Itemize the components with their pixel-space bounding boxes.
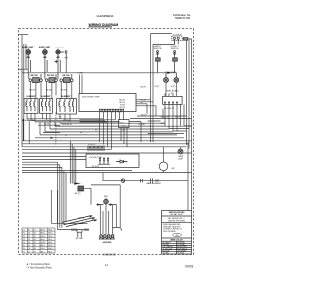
svg-text:W (P): W (P) <box>171 86 176 88</box>
diode D1 <box>116 160 127 163</box>
relay board K2 <box>163 96 183 104</box>
svg-text:INF SW: INF SW <box>47 75 54 77</box>
element box E2 <box>40 99 53 114</box>
svg-text:33: 33 <box>34 239 36 241</box>
svg-text:P5: P5 <box>23 245 25 247</box>
element E2 coils <box>41 99 50 112</box>
wire verticals left feed <box>23 119 60 144</box>
lamp3 terminal marks <box>56 56 60 74</box>
wire drops from bus to bake <box>103 142 188 211</box>
oven lamp LP2 <box>174 75 179 86</box>
TOD box <box>119 120 130 128</box>
svg-text:YELLOW WIRE: YELLOW WIRE <box>163 231 176 233</box>
svg-text:PK PINK: PK PINK <box>177 253 185 255</box>
svg-text:W-14: W-14 <box>48 233 52 235</box>
svg-text:BK RD: BK RD <box>46 90 52 92</box>
svg-text:BK (P): BK (P) <box>75 193 81 195</box>
lamp1 terminal marks <box>27 56 31 74</box>
svg-text:BK GND: BK GND <box>76 238 84 240</box>
latch box <box>86 154 139 168</box>
infinite switch SW3 <box>58 74 73 83</box>
lamp L1 (crossed circle) <box>26 48 31 57</box>
wire capacitor drop <box>65 58 67 73</box>
svg-text:P2 BK W: P2 BK W <box>88 144 95 146</box>
svg-text:BAKE ELEMENT: BAKE ELEMENT <box>147 182 162 185</box>
svg-text:W-12: W-12 <box>48 236 52 238</box>
svg-text:SWITCH: SWITCH <box>171 48 179 50</box>
svg-text:ELEMENT: ELEMENT <box>61 96 71 98</box>
wire right-half lower horizontals <box>148 121 192 134</box>
wire verticals to ground area <box>100 204 116 234</box>
EOC connector pins P1 <box>99 109 124 112</box>
svg-text:ELEMENT: ELEMENT <box>41 96 51 98</box>
svg-text:36: 36 <box>34 248 36 250</box>
infinite switch SW1 <box>29 74 43 83</box>
svg-text:37: 37 <box>34 251 36 253</box>
motor M1 <box>159 147 168 173</box>
svg-text:—— ——: —— —— <box>55 47 65 49</box>
diagonal arrowheads <box>89 215 97 221</box>
svg-text:BK-6: BK-6 <box>41 233 45 235</box>
svg-text:BK-2: BK-2 <box>41 245 45 247</box>
svg-text:W-36 BK-42: W-36 BK-42 <box>62 124 72 126</box>
svg-text:TN TAN: TN TAN <box>163 252 170 255</box>
svg-text:L2: L2 <box>34 230 36 232</box>
terminal block TB1 (dark) <box>78 186 84 191</box>
svg-text:14: 14 <box>28 242 30 244</box>
svg-text:32: 32 <box>34 236 36 238</box>
svg-text:09/03: 09/03 <box>185 264 193 268</box>
svg-text:RD-2: RD-2 <box>41 248 45 250</box>
svg-text:BK RD: BK RD <box>30 90 36 92</box>
svg-text:P2: P2 <box>23 236 25 238</box>
svg-text:RD BK: RD BK <box>44 124 50 126</box>
svg-text:ELECTRONIC OVEN: ELECTRONIC OVEN <box>82 96 100 98</box>
svg-text:RD-2: RD-2 <box>48 239 52 241</box>
svg-text:17: 17 <box>28 251 30 253</box>
wire relay pin drops <box>165 107 181 131</box>
wire cross link with junction arrow <box>151 72 177 74</box>
wire left-mid horizontals <box>38 125 60 132</box>
wire from TB1 <box>84 188 92 204</box>
wires timer to trunks <box>174 39 191 45</box>
svg-text:22: 22 <box>28 236 30 238</box>
oven lamp LP1 <box>164 75 169 86</box>
ground terminals GT1-GT4 <box>99 235 115 239</box>
wire right-half horizontals <box>130 104 192 125</box>
svg-text:ELEMENT: ELEMENT <box>26 96 36 98</box>
wire feed bus <box>22 72 151 74</box>
motor MDL (hatched circle) <box>97 199 117 205</box>
svg-text:INF SW: INF SW <box>63 75 70 77</box>
junction arrow <box>51 137 55 139</box>
svg-text:L1 BK: L1 BK <box>78 73 84 75</box>
svg-text:(M): (M) <box>172 168 175 170</box>
svg-text:P4: P4 <box>23 242 25 244</box>
svg-text:BK-1: BK-1 <box>41 251 45 253</box>
relay K1 beside timer <box>183 38 188 41</box>
svg-text:BK-8: BK-8 <box>41 230 45 232</box>
switch contacts in latch box <box>98 158 110 164</box>
svg-text:BK RD: BK RD <box>61 90 67 92</box>
wires below EOC pins <box>80 112 124 150</box>
wire loop around MDL <box>91 185 120 228</box>
wire mid bundle from bus <box>70 141 76 184</box>
table grid <box>22 228 55 253</box>
svg-text:RD-6: RD-6 <box>41 236 45 238</box>
wire trunk left L1 <box>21 35 23 147</box>
element terminals <box>141 178 159 183</box>
connector hatch marks <box>71 229 77 231</box>
wire lamp to relay verticals <box>166 73 176 97</box>
wire staircase from left trunk <box>22 162 62 167</box>
svg-text:W (P): W (P) <box>155 86 160 88</box>
right vertical trunk wires <box>187 39 192 154</box>
element box E1 <box>24 99 38 114</box>
table cell text <box>23 230 53 254</box>
svg-text:WIRING DIAGRAM: WIRING DIAGRAM <box>89 23 119 27</box>
wires TOD <box>121 122 141 147</box>
legend notes <box>163 223 183 233</box>
lamp L2 (crossed circle) <box>43 48 48 57</box>
svg-text:BK W RD: BK W RD <box>92 166 100 168</box>
svg-text:GLES389ESA: GLES389ESA <box>97 14 114 18</box>
svg-text:BK-6 RD-4 W-8: BK-6 RD-4 W-8 <box>22 119 35 122</box>
wire long horizontals lower <box>22 145 192 211</box>
wire trunk top-right feed <box>151 34 175 142</box>
svg-text:35: 35 <box>34 245 36 247</box>
svg-text:* = Non-Illustrated Parts: * = Non-Illustrated Parts <box>26 267 52 270</box>
svg-text:15: 15 <box>28 245 30 247</box>
svg-text:DOOR SW: DOOR SW <box>75 223 84 225</box>
EOC board U1 <box>79 94 136 112</box>
door switch wire <box>58 223 88 225</box>
connector cluster CN1 <box>88 144 104 151</box>
svg-text:P6: P6 <box>23 248 25 250</box>
timer contact circles <box>173 37 175 39</box>
wire dashed vertical <box>55 113 57 145</box>
svg-text:16: 16 <box>28 248 30 250</box>
svg-text:P1: P1 <box>23 233 25 235</box>
svg-text:SWITCH: SWITCH <box>154 48 162 50</box>
wire bends into table <box>51 190 57 223</box>
main dashed border <box>19 29 194 255</box>
svg-text:BK RD W OR: BK RD W OR <box>164 108 175 110</box>
lamp2 terminal marks <box>43 56 47 74</box>
svg-text:W-16: W-16 <box>48 245 52 247</box>
svg-text:P3: P3 <box>23 239 25 241</box>
switch S5 stack <box>173 51 178 73</box>
buzzer coil <box>77 230 82 238</box>
svg-text:403: 403 <box>176 235 179 237</box>
infinite switch SW2 <box>45 74 57 83</box>
connector blob <box>74 183 81 185</box>
wire bus lines <box>22 123 192 153</box>
svg-text:34: 34 <box>34 242 36 244</box>
legend box frame <box>162 211 192 255</box>
svg-text:W-18: W-18 <box>48 248 52 250</box>
svg-text:13: 13 <box>28 239 30 241</box>
svg-text:BK RD: BK RD <box>64 120 70 122</box>
wire top feed segment <box>18 34 28 36</box>
bake element circuit <box>103 178 188 183</box>
svg-text:P7: P7 <box>23 251 25 253</box>
svg-text:GNE063 BE: GNE063 BE <box>103 255 116 257</box>
svg-text:BK-4: BK-4 <box>41 239 45 241</box>
wire horizontal routing under boxes <box>27 119 107 122</box>
svg-text:12: 12 <box>28 233 30 235</box>
lamp L3 (crossed circle) <box>56 49 60 57</box>
svg-text:GROUND: GROUND <box>103 242 112 244</box>
wire color rows <box>163 241 188 255</box>
wire EOC right-side exits <box>136 100 156 114</box>
capacitor C1 beside lamp3 <box>60 50 68 58</box>
svg-text:LIGHT: LIGHT <box>178 158 184 160</box>
svg-text:L1: L1 <box>23 230 25 232</box>
svg-text:W-10: W-10 <box>41 242 45 244</box>
broil element diagonal wires <box>62 216 94 227</box>
element E1 coils <box>26 99 35 112</box>
wire bake feed <box>103 180 188 182</box>
wire horizontal 229.6 <box>58 229 90 231</box>
left vertical wire bundle to table <box>58 162 66 229</box>
switch S4 stack <box>156 51 161 73</box>
svg-text:31: 31 <box>34 233 36 235</box>
junction cross <box>55 60 58 63</box>
wire drops into EOC <box>79 75 81 94</box>
wire hook from right <box>113 228 122 231</box>
svg-text:BK (P): BK (P) <box>141 86 147 88</box>
svg-text:RD-4: RD-4 <box>48 242 52 244</box>
svg-text:RD-8: RD-8 <box>48 230 52 232</box>
timer box TM1 (dashed) <box>172 36 182 41</box>
element box E3 <box>57 99 77 114</box>
svg-text:5995271706: 5995271706 <box>175 16 190 20</box>
svg-text:RD-6: RD-6 <box>48 251 52 253</box>
svg-text:BROIL: BROIL <box>79 218 85 220</box>
wire drops below switches <box>30 82 72 99</box>
element E3 coils <box>59 99 74 112</box>
thermal fuse TF1 <box>121 179 125 183</box>
relay board pins <box>164 93 180 107</box>
svg-text:INF SW: INF SW <box>31 75 38 77</box>
wires below element boxes <box>27 113 70 122</box>
oven light LP3 <box>178 147 183 154</box>
legend oval code <box>173 233 182 236</box>
svg-text:11: 11 <box>105 263 108 267</box>
